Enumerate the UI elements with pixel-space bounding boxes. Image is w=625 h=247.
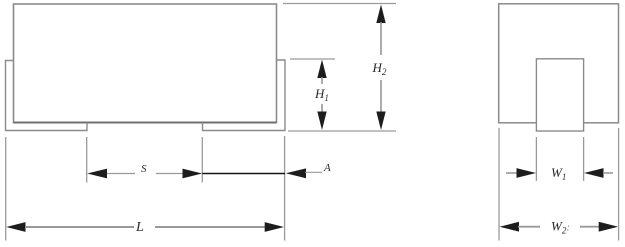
body outline (side view) [14,4,277,123]
svg-text:L: L [135,220,144,235]
extension line L right [284,136,286,241]
extension line H bottom [288,130,396,132]
extension line H1 top [290,58,335,60]
extension line W2 right [618,128,620,241]
dimension H2 [372,5,387,131]
dimension H1 [314,60,329,131]
extension line W2 left [498,128,500,241]
dimension W2 [500,219,619,236]
svg-text:S: S [141,163,147,175]
dimension A line (thick) [202,173,285,175]
dimension W1 [506,165,613,182]
extension line S right [201,137,203,183]
dimension A arrow and label [286,162,331,178]
extension line W1 left [535,137,537,181]
end view body outline [499,4,619,123]
extension line H2 top [283,3,396,5]
body bottom edge (side view, darker) [14,122,277,124]
end view terminal [536,59,583,131]
terminal left (side view) [6,61,88,131]
extension line W1 right [583,137,585,181]
extension line L left [5,137,7,241]
dimension L [6,220,284,235]
svg-text:W2:: W2: [551,219,570,236]
terminal right (side view) [203,60,286,131]
svg-text:A: A [323,162,331,174]
extension line S left [86,137,88,183]
dimension S [87,163,202,178]
